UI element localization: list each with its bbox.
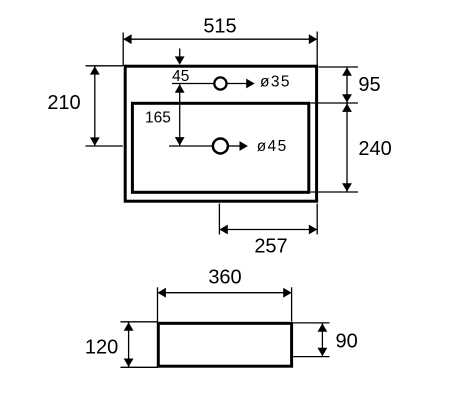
svg-text:ø45: ø45 (257, 138, 288, 155)
svg-text:240: 240 (358, 138, 391, 160)
svg-text:120: 120 (85, 337, 118, 359)
svg-text:45: 45 (172, 68, 189, 85)
svg-text:90: 90 (336, 330, 358, 352)
svg-text:95: 95 (358, 74, 380, 96)
svg-text:257: 257 (254, 235, 287, 257)
svg-text:ø35: ø35 (260, 74, 291, 91)
svg-text:165: 165 (145, 110, 171, 127)
svg-text:515: 515 (203, 15, 236, 37)
svg-text:360: 360 (208, 267, 241, 289)
svg-text:210: 210 (47, 92, 80, 114)
